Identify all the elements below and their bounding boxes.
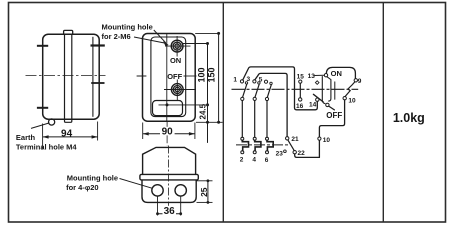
side view body <box>43 34 99 119</box>
overload NC blade 21-22 <box>288 140 294 150</box>
pushbutton plunger right guide <box>327 77 331 101</box>
column separator 2 <box>382 3 384 223</box>
svg-text:ON: ON <box>170 56 181 65</box>
return wire: 10 down and left to junction <box>319 100 344 157</box>
side view horizontal centerline <box>26 75 106 77</box>
extension from body bottom <box>196 121 223 123</box>
leader from label to front-view hole <box>154 30 166 43</box>
side view right terminal tick upper <box>91 44 105 46</box>
side view inner right edge line <box>92 37 94 117</box>
svg-text:22: 22 <box>297 150 305 157</box>
wire bus B: pole2 top to overload contact 21 <box>255 73 287 136</box>
svg-text:Earth: Earth <box>16 133 36 142</box>
svg-text:23: 23 <box>276 151 284 158</box>
svg-text:100: 100 <box>196 67 206 82</box>
earth leader line <box>31 123 49 128</box>
svg-text:for 2-M6: for 2-M6 <box>102 32 131 41</box>
bottom mounting hole (2-M6) <box>171 84 183 96</box>
svg-text:for 4-φ20: for 4-φ20 <box>66 183 98 192</box>
main contact pole 3 (terminals 5-6) <box>264 80 272 137</box>
svg-text:15: 15 <box>297 74 305 81</box>
mounting hole circle right <box>175 185 186 196</box>
side view top tab <box>64 30 73 34</box>
svg-text:90: 90 <box>162 127 174 138</box>
svg-text:14: 14 <box>309 102 317 109</box>
svg-text:24.5: 24.5 <box>198 103 207 119</box>
svg-text:2: 2 <box>240 156 244 163</box>
circuit text labels <box>233 73 361 164</box>
top mounting hole (2-M6) <box>171 40 183 52</box>
bottom view <box>140 146 198 215</box>
extension from top hole <box>183 43 208 45</box>
side view bottom tab <box>65 119 72 122</box>
terminal 23 circle <box>284 150 287 153</box>
svg-text:OFF: OFF <box>167 72 182 81</box>
100 dimension line <box>207 44 209 143</box>
overload trip linkage line <box>236 144 290 146</box>
auxiliary contact 15-16 <box>299 80 302 101</box>
heater element pole 1 <box>241 137 249 154</box>
svg-text:21: 21 <box>291 136 299 143</box>
bottom view lower box <box>142 180 196 203</box>
svg-text:1: 1 <box>233 76 237 83</box>
nameplate center dot and extension <box>166 103 169 106</box>
pushbutton outer guide <box>334 82 336 99</box>
wire 22 to junction <box>295 154 320 158</box>
svg-text:OFF: OFF <box>326 111 342 120</box>
svg-text:10: 10 <box>323 137 331 144</box>
svg-text:ON: ON <box>331 69 342 78</box>
side view cover strip left edge <box>64 34 66 119</box>
ON button bracket from 13 to 9 <box>326 67 355 78</box>
heater element pole 2 <box>253 137 261 154</box>
svg-text:25: 25 <box>199 187 209 197</box>
side view left terminal tick lower <box>37 107 48 109</box>
svg-text:1.0kg: 1.0kg <box>393 111 425 125</box>
bottom view vertical centerline <box>168 146 170 215</box>
OFF row extension stub right <box>184 75 197 77</box>
OFF row extension stub left <box>137 75 147 77</box>
interlock diamond <box>315 81 319 85</box>
overload NC contact terminal 21 <box>286 137 289 140</box>
main contact pole 1 (terminals 1-2) <box>240 80 247 137</box>
wire bus A: pole1 top to start contact 14 <box>243 67 317 110</box>
extension from top edge <box>195 32 219 34</box>
bottom view upper body with shoulders <box>143 147 196 174</box>
nameplate <box>153 101 183 116</box>
terminal 13 circle and lead <box>315 74 328 77</box>
svg-text:Mounting hole: Mounting hole <box>67 173 118 182</box>
start contact blade 13-14 <box>313 94 323 102</box>
overload trip contact terminal 10 <box>343 97 346 100</box>
right-side vertical dimensions 100 / 150 / 24.5 <box>183 32 223 143</box>
heater element pole 3 <box>266 137 274 154</box>
column separator 1 <box>222 3 224 223</box>
side view cover strip right edge <box>71 34 73 119</box>
svg-text:16: 16 <box>296 103 304 110</box>
svg-text:150: 150 <box>206 67 216 82</box>
bottom view mounting flange band <box>140 174 198 180</box>
terminal 14 circle <box>316 98 319 101</box>
svg-text:10: 10 <box>348 97 356 104</box>
svg-text:5: 5 <box>259 76 263 83</box>
pushbutton plunger left guide <box>322 77 325 104</box>
side view left terminal tick upper <box>37 45 48 47</box>
front view <box>137 34 208 146</box>
svg-text:36: 36 <box>164 206 176 217</box>
dimension 36 <box>156 197 182 216</box>
front view inner cover <box>151 37 186 117</box>
dimension 94 <box>43 122 98 150</box>
main contact pole 2 (terminals 3-4) <box>253 80 260 137</box>
terminal 10 circle on return wire <box>318 137 321 140</box>
mechanical linkage line (contacts) <box>232 88 359 90</box>
side view right terminal tick lower <box>91 82 104 84</box>
dimension 90 <box>143 123 195 140</box>
svg-text:Mounting hole: Mounting hole <box>102 22 153 31</box>
front view outer body <box>143 34 196 122</box>
earth terminal hole circle <box>49 119 55 125</box>
overload NC contact terminal 22 <box>293 151 296 154</box>
OFF button blade <box>329 106 335 110</box>
svg-text:6: 6 <box>265 157 269 164</box>
svg-text:9: 9 <box>358 78 362 85</box>
svg-text:Terminal hole M4: Terminal hole M4 <box>16 142 78 151</box>
overload trip contact terminal 9 <box>354 79 357 82</box>
svg-text:94: 94 <box>61 129 73 140</box>
svg-text:3: 3 <box>246 76 250 83</box>
front view center seam / centerline <box>166 34 168 122</box>
overload trip blade with kink <box>345 82 355 97</box>
OFF button contact circle <box>326 103 329 106</box>
svg-text:4: 4 <box>252 157 256 164</box>
dimension 25 <box>197 179 213 203</box>
mounting hole circle left <box>152 185 163 196</box>
svg-text:13: 13 <box>308 73 316 80</box>
150 dimension line <box>218 33 220 122</box>
